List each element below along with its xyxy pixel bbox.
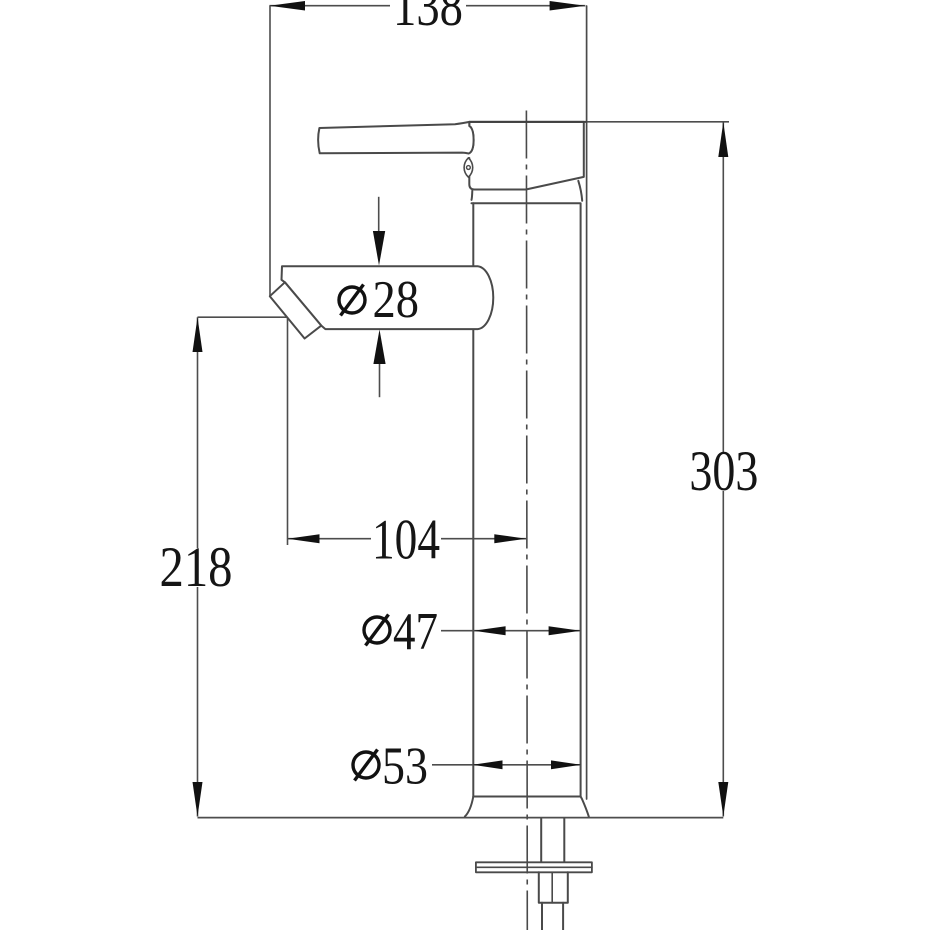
arrowhead 138 left — [269, 1, 305, 11]
arrowhead 138 right — [550, 1, 586, 11]
neck left curve — [471, 191, 474, 200]
dim phi53 line — [432, 764, 581, 766]
arrowhead 104 left — [288, 534, 320, 543]
arrowhead 303 up — [718, 122, 728, 157]
base flare — [465, 797, 474, 817]
threaded rod — [541, 903, 543, 930]
arrowhead phi28 down — [373, 231, 385, 266]
lever joint lens — [464, 158, 473, 177]
svg-text:138: 138 — [393, 0, 463, 38]
lever notch arc — [469, 126, 474, 154]
arrowhead phi53 left — [473, 760, 503, 769]
spout body — [282, 266, 494, 329]
phi28 symbol — [339, 285, 365, 316]
ext line 218 horizontal — [198, 316, 287, 318]
head top edge — [469, 121, 586, 123]
svg-text:47: 47 — [393, 603, 438, 661]
arrowhead 303 down — [718, 782, 728, 817]
joint screw circle — [467, 166, 471, 170]
arrowhead phi47 right — [549, 626, 581, 635]
base top edge — [473, 796, 580, 798]
arrowhead phi28 up — [373, 330, 385, 365]
arrowhead 104 right — [494, 534, 526, 543]
nozzle aerator band — [270, 282, 322, 338]
phi28 upper arrow shaft — [378, 197, 380, 234]
svg-text:303: 303 — [689, 440, 758, 503]
mounting nut — [539, 872, 568, 903]
washer plate — [476, 862, 592, 872]
head body — [469, 122, 584, 190]
arrowhead 218 down — [193, 782, 203, 817]
svg-text:53: 53 — [382, 737, 428, 795]
white-outs behind dimension texts — [160, 0, 761, 587]
column body — [472, 203, 474, 796]
handle lever — [318, 122, 473, 154]
outer contour / right extension line — [586, 6, 588, 799]
dim 303 line — [722, 122, 724, 817]
ext line 104 vertical — [287, 318, 289, 545]
dim 104 line — [288, 538, 527, 540]
arrowhead phi47 left — [474, 626, 506, 635]
svg-text:218: 218 — [160, 536, 233, 599]
ext line 138 left — [269, 6, 271, 296]
neck right curve — [578, 181, 582, 201]
phi53 symbol — [353, 750, 379, 781]
arrowhead 218 up — [193, 317, 203, 352]
ext line 303 top — [587, 121, 729, 123]
arrowhead phi53 right — [551, 760, 581, 769]
bottom mounting line — [198, 817, 724, 819]
shank below counter — [540, 819, 542, 863]
svg-text:28: 28 — [373, 271, 420, 329]
centerline — [525, 111, 528, 930]
dim 138 line — [269, 5, 585, 7]
phi47 symbol — [364, 615, 390, 646]
svg-text:104: 104 — [372, 509, 440, 572]
phi28 lower arrow shaft — [379, 360, 381, 397]
dim 218 line — [197, 317, 199, 816]
dim phi47 line — [441, 630, 581, 632]
